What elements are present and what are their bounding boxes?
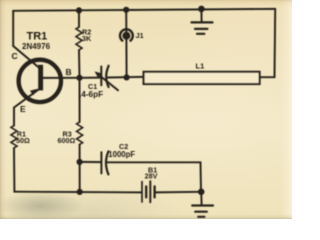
wire C2 branch left bbox=[80, 161, 101, 163]
svg-text:1000pF: 1000pF bbox=[108, 150, 135, 159]
svg-text:3K: 3K bbox=[82, 34, 92, 43]
wire base node to C1 left plate bbox=[80, 77, 102, 79]
wire right vertical down to ground node bbox=[200, 162, 203, 192]
inductor L1 box bbox=[144, 72, 260, 84]
svg-text:.4-6pF: .4-6pF bbox=[79, 90, 103, 99]
node dot top rail R2 bbox=[76, 7, 82, 13]
capacitor C2 left plate bbox=[100, 152, 102, 173]
ground (bottom) bars bbox=[192, 204, 213, 206]
svg-text:28V: 28V bbox=[145, 172, 158, 181]
svg-text:50Ω: 50Ω bbox=[16, 136, 30, 145]
svg-text:TR1: TR1 bbox=[27, 31, 48, 43]
transistor TR1 emitter arrow (PNP, pointing to base bar) bbox=[30, 89, 37, 95]
node dot bottom rail ground bbox=[198, 189, 205, 196]
svg-text:600Ω: 600Ω bbox=[58, 136, 76, 145]
battery B1 plates bbox=[141, 182, 143, 202]
svg-text:2N4976: 2N4976 bbox=[22, 42, 51, 51]
jack J1 outer arc bbox=[120, 29, 133, 40]
svg-text:C: C bbox=[12, 51, 18, 61]
capacitor C2 curved plate bbox=[106, 151, 108, 174]
wire bottom rail left of battery bbox=[14, 191, 141, 194]
resistor R3 600ohm zigzag bbox=[77, 122, 83, 145]
svg-text:B: B bbox=[66, 67, 72, 77]
node dot top rail ground bbox=[198, 6, 205, 13]
wire battery to ground node bbox=[156, 191, 202, 194]
capacitor C1 curved plate bbox=[106, 66, 108, 87]
svg-text:E: E bbox=[20, 104, 26, 114]
jack J1 center dot bbox=[122, 32, 130, 40]
transistor TR1 circle bbox=[19, 60, 61, 102]
transistor TR1 emitter lead bbox=[14, 89, 40, 108]
wire L1 right stub bbox=[260, 76, 275, 78]
wire C1 to J1 node to L1 bbox=[108, 76, 144, 79]
wire left vertical from top rail to collector bend bbox=[12, 11, 14, 46]
wire R2 top vertical bbox=[78, 10, 80, 27]
node dot C2 branch bbox=[77, 159, 83, 165]
transistor Q TR1 collector lead bbox=[13, 46, 40, 69]
node dot J1 bottom bbox=[124, 74, 130, 80]
resistor R2 3K zigzag bbox=[76, 27, 82, 50]
node dot top rail J1 bbox=[123, 7, 129, 13]
wire R2 bottom to base node bbox=[78, 50, 81, 78]
wire R3 bottom vertical bbox=[79, 145, 81, 192]
capacitor C1 variable arrow shaft bbox=[97, 73, 119, 90]
wire bottom ground stem bbox=[200, 192, 202, 205]
wire top rail bbox=[13, 9, 275, 11]
node dot base/R2/R3 bbox=[76, 75, 82, 81]
wire R1 to bottom rail bbox=[13, 148, 15, 192]
wire R3 vertical top bbox=[79, 78, 81, 122]
wire emitter down to R1 bbox=[13, 108, 15, 126]
node dot bottom rail R3 bbox=[77, 189, 83, 195]
wire top ground stem bbox=[200, 9, 202, 21]
wire base lead to R2 node bbox=[43, 77, 80, 79]
capacitor C1 variable arrow head bbox=[95, 71, 102, 77]
wire right vertical bbox=[274, 9, 277, 77]
resistor R1 50ohm zigzag bbox=[11, 126, 17, 149]
transistor TR1 base bar bbox=[38, 65, 43, 91]
wire C2 to right corner bbox=[108, 161, 201, 163]
svg-text:L1: L1 bbox=[196, 62, 205, 71]
capacitor C1 left plate bbox=[100, 67, 102, 86]
svg-text:J1: J1 bbox=[136, 31, 144, 40]
ground (top) bars bbox=[192, 21, 213, 23]
wire J1 vertical bbox=[125, 10, 127, 78]
